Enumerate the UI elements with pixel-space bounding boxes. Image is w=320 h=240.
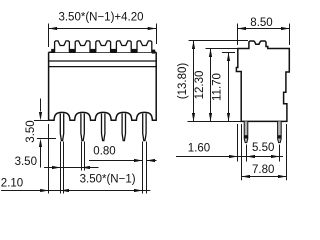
front body seam line 1: [49, 60, 157, 62]
clamp bump 5: [137, 41, 152, 52]
side leg 1 tip band: [244, 135, 248, 138]
svg-text:5.50: 5.50: [252, 142, 274, 154]
pin5 extension lines: [143, 142, 147, 194]
bottom ext line body left: [48, 124, 50, 194]
dim 11.70 line: [228, 53, 230, 122]
pin 4: [122, 114, 125, 141]
clamp bump 1: [55, 41, 70, 52]
dim 3.50 pitch line: [44, 167, 99, 169]
clamp bump 2: [75, 41, 90, 52]
chained dim 1.60 and 5.50 line: [176, 156, 283, 158]
side leg witness lines: [247, 145, 280, 162]
vertical 3.50 pin length dim witness lines: [34, 121, 56, 139]
side leg 1: [244, 121, 248, 142]
gap square 4-5: [131, 49, 137, 53]
gap square left end: [51, 49, 54, 53]
bottom chained dim line 2.10 and 3.50*(N-1): [1, 190, 150, 192]
side left face extension down: [237, 124, 239, 162]
bottom witness line (side): [188, 121, 242, 123]
svg-text:3.50: 3.50: [25, 120, 37, 142]
gap square 3-4: [111, 49, 117, 53]
top dim extension lines: [49, 24, 157, 48]
vertical 3.50 dim line and arrows: [40, 99, 42, 168]
svg-text:12.30: 12.30: [194, 71, 206, 100]
svg-text:3.50*(N−1)+4.20: 3.50*(N−1)+4.20: [58, 12, 143, 24]
dim (13.80) line: [193, 41, 195, 122]
dim (13.80) witness top: [189, 40, 248, 42]
svg-text:11.70: 11.70: [212, 73, 224, 101]
clamp bump 4: [116, 41, 131, 52]
dim 3.50*(N-1)+4.20 line: [49, 28, 157, 30]
svg-text:1.60: 1.60: [188, 143, 210, 155]
front body top edge: [49, 51, 157, 53]
svg-text:3.50: 3.50: [15, 156, 37, 168]
pin2 extension lines: [82, 142, 85, 171]
pin 3: [102, 114, 105, 141]
dim 7.80 ext lines: [242, 124, 287, 180]
front body seam line 2: [49, 66, 157, 68]
clamp bump 3: [96, 41, 111, 52]
gap square right end: [152, 50, 155, 54]
dim 8.50 ext lines: [238, 24, 290, 46]
svg-text:7.80: 7.80: [252, 164, 274, 176]
pin1 extension lines: [61, 142, 64, 194]
pin 1: [60, 114, 63, 141]
side leg 2: [278, 121, 282, 142]
dim 11.70 witness top: [222, 52, 235, 54]
svg-text:3.50*(N−1): 3.50*(N−1): [80, 173, 136, 185]
side view body outline: [236, 41, 289, 121]
svg-text:8.50: 8.50: [250, 17, 272, 29]
dim 12.30 line: [210, 49, 212, 122]
dim 7.80 line: [242, 176, 287, 178]
dim 0.80 line: [89, 160, 157, 162]
pin 2: [81, 114, 84, 141]
svg-text:(13.80): (13.80): [177, 63, 189, 100]
svg-text:2.10: 2.10: [1, 177, 23, 189]
svg-text:0.80: 0.80: [93, 146, 115, 158]
gap square 1-2: [69, 49, 75, 53]
side leg 2 tip band: [278, 135, 282, 138]
dim 8.50 line: [238, 28, 290, 30]
front view body outline with wavy bottom: [49, 52, 157, 120]
pin 5: [143, 114, 146, 141]
dim 12.30 witness top: [206, 48, 239, 50]
gap square 2-3: [90, 49, 96, 53]
